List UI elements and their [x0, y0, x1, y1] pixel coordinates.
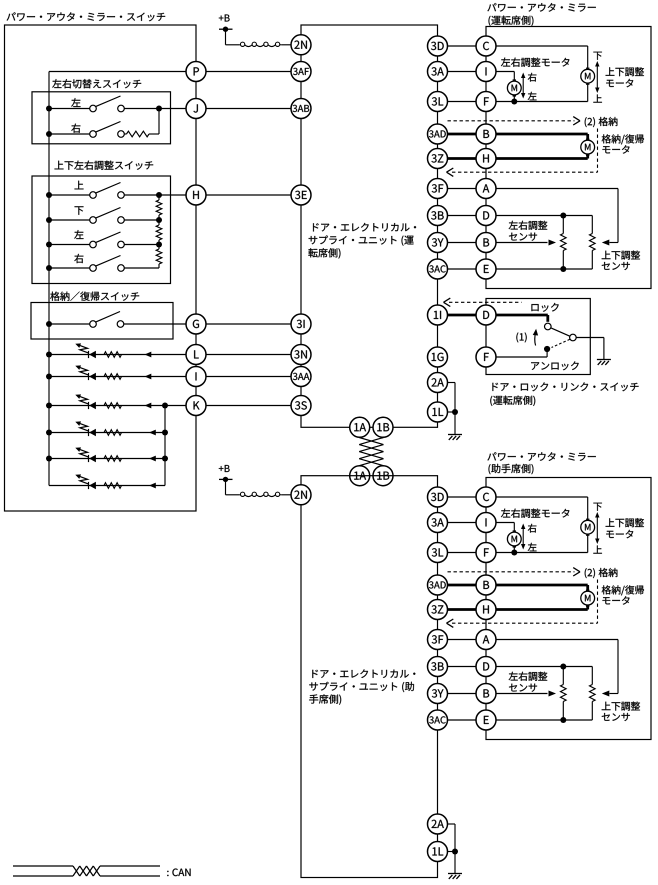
connector pin C (passenger mirror) [476, 487, 496, 507]
label selector switch [52, 79, 141, 88]
arrow up-down motion driver [595, 61, 599, 93]
connector pin 2A (passenger unit right) [428, 814, 448, 834]
connector pin P [186, 62, 206, 82]
connector pin 3N (driver unit left) [291, 345, 311, 365]
label UD sensor line1 passenger [602, 702, 640, 711]
label LR sensor line1 passenger [509, 672, 548, 681]
LED D6 [75, 474, 96, 489]
switch hidari [49, 96, 159, 112]
resistor UD adjust sensor passenger [590, 667, 596, 721]
node adjust junction 3 [156, 242, 162, 248]
connector pin C (driver mirror) [476, 36, 496, 56]
wire resistor to junction [149, 109, 159, 135]
wire to J [159, 108, 187, 110]
contact common [570, 334, 577, 341]
connector pin F (door lock) [476, 347, 496, 367]
label mirror passenger line2 [489, 464, 534, 474]
label UD sensor line2 passenger [602, 713, 630, 721]
node bus adjust row 2 [46, 217, 52, 223]
connector pin 2N (passenger unit) [291, 485, 311, 505]
wire LED row 6 [49, 485, 165, 487]
adjust switch box [32, 176, 171, 284]
dashed line retract right passenger [597, 580, 599, 624]
wire adjust out to H [159, 194, 187, 196]
wire unit to mirror row 9 passenger [448, 719, 487, 721]
node bus LED row 4 [46, 430, 52, 436]
wire unit to mirror row 9 [448, 268, 487, 270]
connector pin 3Y (driver unit right) [428, 233, 448, 253]
label UD adjust motor line1 passenger [606, 518, 644, 527]
connector pin 1I (driver unit right) [428, 305, 448, 325]
bold wire retract motor to H driver [586, 154, 589, 159]
wire B row wiper passenger [486, 693, 548, 695]
wire C to UD motor driver [486, 46, 588, 69]
connector pin H (passenger mirror) [476, 600, 496, 620]
node LR motor F junction driver [511, 99, 517, 105]
node bus retract row [46, 321, 52, 327]
resistor LED row 3 [104, 403, 122, 409]
bold wire B to retract motor passenger [586, 585, 589, 591]
label door ECU passenger line1 [312, 669, 415, 678]
label door lock link switch line1 [492, 382, 638, 391]
wire LED row 2 [49, 376, 187, 378]
wire 1L to ground [448, 412, 456, 434]
wire D row driver [486, 215, 592, 217]
motor up-down adjust passenger [581, 519, 595, 535]
connector pin D (passenger mirror) [476, 657, 496, 677]
label migi row2 [71, 124, 80, 133]
motor left-right adjust driver [507, 80, 521, 96]
diode arrow row 4 [149, 430, 156, 436]
wire LR motor to F junction passenger [513, 546, 515, 553]
bold wire retract motor to H passenger [586, 605, 589, 610]
wire 1L to ground passenger [448, 852, 456, 874]
wire LED row 4 [49, 432, 165, 434]
connector pin 3B (passenger unit right) [428, 657, 448, 677]
label UD adjust motor line1 driver [606, 67, 644, 76]
connector pin 2A (driver unit right) [428, 373, 448, 393]
label UD adjust motor line2 driver [606, 79, 633, 87]
connector pin 3D (passenger unit right) [428, 487, 448, 507]
connector pin 3F (passenger unit right) [428, 630, 448, 650]
node bus LED row 1 [46, 352, 52, 358]
connector pin 3L (driver unit right) [428, 92, 448, 112]
connector pin 3AA (driver unit left) [291, 367, 311, 387]
label door ECU passenger line2 [309, 682, 414, 692]
label lock [531, 303, 558, 312]
label LR sensor line1 driver [509, 221, 548, 230]
node adjust junction 2 [156, 217, 162, 223]
wire unit to mirror row 3 passenger [448, 552, 487, 554]
label door lock link switch line2 [490, 396, 535, 406]
label UD sensor line2 driver [602, 262, 630, 270]
wire K-3S [206, 405, 292, 407]
connector pin H (driver mirror) [476, 149, 496, 169]
wire H-3E [206, 194, 292, 196]
label ue driver [593, 94, 602, 102]
dashed line retract right driver [597, 129, 599, 173]
wire unit to mirror row 7 passenger [448, 666, 487, 668]
wire UD motor to F driver [514, 83, 587, 101]
dashed arrow return driver [447, 168, 598, 176]
switch 下 [49, 208, 159, 224]
connector pin D (door lock) [476, 305, 496, 325]
label LR sensor line2 passenger [509, 684, 537, 692]
node 1L ground junction passenger [452, 849, 458, 855]
wire unit to mirror row 6 passenger [448, 639, 487, 641]
resistor LR adjust sensor passenger [561, 667, 567, 721]
resistor chain 2 [156, 220, 162, 245]
arrow left-right motion passenger [521, 524, 525, 550]
wire unit to mirror row 5 [448, 157, 487, 160]
power outer mirror switch box [5, 25, 197, 511]
label door ECU driver line2 [309, 235, 414, 245]
resistor selector [127, 131, 150, 137]
wire LED row 5 [49, 458, 165, 460]
label LR sensor line2 driver [509, 233, 537, 241]
contact lock [545, 323, 552, 330]
bold wire H row passenger [486, 608, 588, 611]
bold wire B row passenger [486, 584, 588, 587]
label door ECU driver line3 [308, 248, 340, 258]
label retract/return motor line2 driver [603, 145, 630, 153]
label 右 adjust row [74, 254, 83, 263]
label (2) kakunou passenger [585, 568, 618, 578]
connector pin 3E (driver unit left) [291, 185, 311, 205]
dashed arrow door lock [444, 298, 522, 306]
connector pin 1A (driver) [350, 417, 370, 437]
connector pin 3L (passenger unit right) [428, 543, 448, 563]
node bus adjust row 4 [46, 265, 52, 271]
label migi arrow driver [528, 73, 537, 82]
node bus adjust row 3 [46, 242, 52, 248]
connector pin 3A (driver unit right) [428, 62, 448, 82]
wire C to UD motor passenger [486, 497, 588, 520]
connector pin K [186, 396, 206, 416]
node E junction passenger [560, 717, 566, 723]
diode arrow row 6 [149, 483, 156, 489]
connector pin 3Z (passenger unit right) [428, 600, 448, 620]
resistor LED row 1 [104, 352, 122, 358]
label (2) kakunou driver [585, 117, 618, 127]
node K junction [162, 403, 168, 409]
LED D1 [75, 343, 96, 358]
label shita driver [593, 52, 601, 60]
battery feed +B bottom [219, 477, 239, 495]
connector pin E (passenger mirror) [476, 710, 496, 730]
connector pin 3F (driver unit right) [428, 179, 448, 199]
wire UD motor to F passenger [514, 534, 587, 552]
motor left-right adjust passenger [507, 531, 521, 547]
wire A row driver [486, 189, 618, 243]
node LED right row [162, 456, 168, 462]
LED D2 [75, 365, 96, 380]
door lock link switch box [486, 299, 590, 375]
node bus row1 [46, 106, 52, 112]
label retract/return motor line1 driver [602, 134, 644, 144]
wire unit to mirror row 5 passenger [448, 608, 487, 611]
wire unit to mirror row 7 [448, 215, 487, 217]
wire unit to mirror row 6 [448, 188, 487, 190]
connector pin H [186, 185, 206, 205]
power outer mirror (passenger) box [486, 478, 651, 740]
label migi arrow passenger [528, 524, 537, 533]
selector switch box [32, 92, 171, 144]
wire E row driver [486, 268, 592, 270]
wire coil to 2N [282, 44, 292, 46]
label 上 adjust row [75, 181, 84, 190]
node bus adjust row 1 [46, 192, 52, 198]
bold wire H row driver [486, 157, 588, 160]
motor up-down adjust driver [581, 68, 595, 84]
wire unit to mirror row 4 [448, 133, 487, 136]
arrow B into LR sensor driver [549, 240, 557, 246]
resistor UD adjust sensor driver [590, 216, 596, 270]
connector pin 3AC (driver unit right) [428, 259, 448, 279]
connector pin 3AD (driver unit right) [428, 124, 448, 144]
connector pin L [186, 345, 206, 365]
wire J-3AB [206, 108, 292, 110]
connector pin A (passenger mirror) [476, 630, 496, 650]
node bus row2 [46, 131, 52, 137]
ground driver unit [448, 435, 462, 440]
connector pin 1G (driver unit right) [428, 347, 448, 367]
wire unit to mirror row 8 [448, 242, 487, 244]
label LR adjust motor passenger [501, 509, 569, 518]
connector pin F (driver mirror) [476, 92, 496, 112]
connector pin B (passenger mirror) [476, 575, 496, 595]
CAN twisted pair [359, 438, 383, 466]
arrow (1) actuation [533, 329, 538, 346]
wire coil to 2N passenger [282, 494, 292, 496]
connector pin 3S (driver unit left) [291, 396, 311, 416]
switch 右 [49, 256, 159, 272]
dashed arrow return passenger [447, 619, 598, 627]
ground door lock [597, 360, 611, 365]
label mirror passenger line1 [487, 452, 595, 461]
contact unlock [544, 346, 550, 352]
label UD sensor line1 driver [602, 251, 640, 260]
connector pin 1L (driver unit right) [428, 402, 448, 422]
wire P-3AF [206, 71, 292, 73]
connector pin 3I (driver unit left) [291, 314, 311, 334]
connector pin B (driver mirror) [476, 124, 496, 144]
label 左 adjust row [74, 230, 83, 239]
CAN legend text [167, 869, 190, 877]
node bus LED row 5 [46, 456, 52, 462]
resistor LED row 6 [104, 483, 122, 489]
wire unit to mirror row 4 passenger [448, 584, 487, 587]
label hidari arrow passenger [528, 543, 537, 551]
dashed arrow retract passenger [448, 568, 581, 576]
connector pin 3Y (passenger unit right) [428, 684, 448, 704]
arrow A into UD sensor driver [602, 240, 610, 246]
wire L-3N [206, 354, 292, 356]
label mirror driver line2 [489, 16, 534, 26]
node junction row1 [156, 106, 162, 112]
fusible link top [239, 42, 282, 46]
wire LED row 1 [49, 354, 187, 356]
door electrical supply unit (driver) box [301, 25, 438, 427]
connector pin G [186, 314, 206, 334]
wire I to LR motor driver [486, 72, 514, 82]
LED D5 [75, 447, 96, 462]
left bus [48, 72, 50, 486]
resistor LED row 4 [104, 430, 122, 436]
resistor LED row 5 [104, 456, 122, 462]
wire F row passenger [486, 552, 514, 554]
bold wire B to retract motor driver [586, 134, 589, 140]
switch 左 [49, 232, 159, 248]
label adjust switch [55, 161, 154, 170]
node bus LED row 2 [46, 374, 52, 380]
diode arrow row 5 [149, 456, 156, 462]
label 下 adjust row [75, 206, 84, 214]
switch lever door lock [551, 328, 570, 336]
connector pin 3D (driver unit right) [428, 36, 448, 56]
LED right bus [164, 406, 166, 486]
node D junction driver [560, 213, 566, 219]
switch 上 [49, 183, 159, 199]
connector pin I [186, 367, 206, 387]
resistor chain 3 [156, 245, 162, 269]
label hidari row1 [71, 98, 80, 107]
node adjust junction 1 [156, 192, 162, 198]
battery feed +B top [219, 27, 239, 45]
wire F row driver [486, 101, 514, 103]
motor retract/return driver [581, 139, 595, 155]
power outer mirror (driver) box [486, 27, 651, 289]
node 1L ground junction [452, 409, 458, 415]
wire G-3I [206, 323, 292, 325]
wire I to LR motor passenger [486, 523, 514, 533]
wire P feed [49, 71, 187, 73]
+B label (bottom) [219, 465, 230, 472]
LED D4 [75, 421, 96, 436]
diode arrow row 1 [145, 352, 152, 358]
ground passenger unit [448, 874, 462, 879]
retract switch box [31, 303, 173, 340]
dashed lever to unlock [552, 339, 570, 347]
arrow B into LR sensor passenger [549, 691, 557, 697]
connector pin 3AD (passenger unit right) [428, 575, 448, 595]
connector pin B (passenger mirror) [476, 684, 496, 704]
label UD adjust motor line2 passenger [606, 530, 633, 538]
connector pin 3Z (driver unit right) [428, 149, 448, 169]
dashed arrow retract driver [448, 117, 581, 125]
diode arrow row 2 [145, 374, 152, 380]
wire 2A to ground branch [448, 383, 456, 413]
connector pin 3AF (driver unit left) [291, 62, 311, 82]
connector pin 3A (passenger unit right) [428, 513, 448, 533]
diode arrow row 3 [145, 403, 152, 409]
arrow up-down motion passenger [595, 512, 599, 544]
label LR adjust motor driver [501, 58, 569, 67]
connector pin 1B (passenger) [373, 466, 393, 486]
connector pin 1L (passenger unit right) [428, 842, 448, 862]
connector pin B (driver mirror) [476, 233, 496, 253]
wire unit to mirror row 1 passenger [448, 496, 487, 498]
wire I-3AA [206, 376, 292, 378]
resistor LR adjust sensor driver [561, 216, 567, 270]
node LED right row [162, 430, 168, 436]
connector pin 3B (driver unit right) [428, 206, 448, 226]
node E junction driver [560, 266, 566, 272]
label retract switch [50, 292, 139, 301]
connector pin 3AC (passenger unit right) [428, 710, 448, 730]
label hidari arrow driver [528, 92, 537, 100]
connector pin 1A (passenger) [350, 466, 370, 486]
wire A row passenger [486, 640, 618, 694]
label shita passenger [593, 503, 601, 511]
wire unit to mirror row 2 passenger [448, 522, 487, 524]
wire unit to mirror row 8 passenger [448, 693, 487, 695]
connector pin D (driver mirror) [476, 206, 496, 226]
wire unit to mirror row 2 [448, 71, 487, 73]
+B label (top) [219, 15, 230, 22]
node bus LED row 3 [46, 403, 52, 409]
label (1) [516, 332, 526, 342]
label door ECU passenger line3 [309, 694, 341, 704]
wire unit to mirror row 3 [448, 101, 487, 103]
label retract/return motor line1 passenger [602, 585, 644, 595]
label ue passenger [593, 545, 602, 553]
connector pin J [186, 99, 206, 119]
label power outer mirror switch [7, 12, 165, 21]
wire 2A to ground branch passenger [448, 824, 456, 852]
connector pin 2N (driver unit left) [291, 35, 311, 55]
connector pin E (driver mirror) [476, 259, 496, 279]
arrow left-right motion driver [521, 73, 525, 99]
bold wire 1I to D lock [448, 315, 548, 322]
wire B row wiper driver [486, 242, 548, 244]
motor retract/return passenger [581, 590, 595, 606]
wire LR motor to F junction driver [513, 95, 515, 102]
connector pin 1B (driver) [373, 417, 393, 437]
wire F to unlock [496, 352, 547, 358]
connector pin A (driver mirror) [476, 179, 496, 199]
bold wire B row driver [486, 133, 588, 136]
wire LED row 3 [49, 405, 187, 407]
connector pin I (passenger mirror) [476, 513, 496, 533]
arrow A into UD sensor passenger [602, 691, 610, 697]
fusible link bottom [239, 492, 282, 496]
wire D row passenger [486, 666, 592, 668]
switch migi [49, 122, 127, 138]
wire common to ground [576, 338, 604, 360]
node D junction passenger [560, 664, 566, 670]
connector pin F (passenger mirror) [476, 543, 496, 563]
switch retract [49, 312, 187, 328]
door electrical supply unit (passenger) box [301, 476, 438, 878]
label door ECU driver line1 [313, 223, 416, 232]
connector pin I (driver mirror) [476, 62, 496, 82]
LED D3 [75, 394, 96, 409]
connector pin 3AB (driver unit left) [291, 99, 311, 119]
node LR motor F junction passenger [511, 550, 517, 556]
label unlock [531, 361, 578, 370]
wire E row passenger [486, 719, 592, 721]
wire unit to mirror row 1 [448, 45, 487, 47]
CAN legend symbol [13, 866, 160, 876]
label retract/return motor line2 passenger [603, 596, 630, 604]
resistor chain 1 [156, 195, 162, 220]
label mirror driver line1 [487, 3, 595, 12]
resistor LED row 2 [104, 374, 122, 380]
